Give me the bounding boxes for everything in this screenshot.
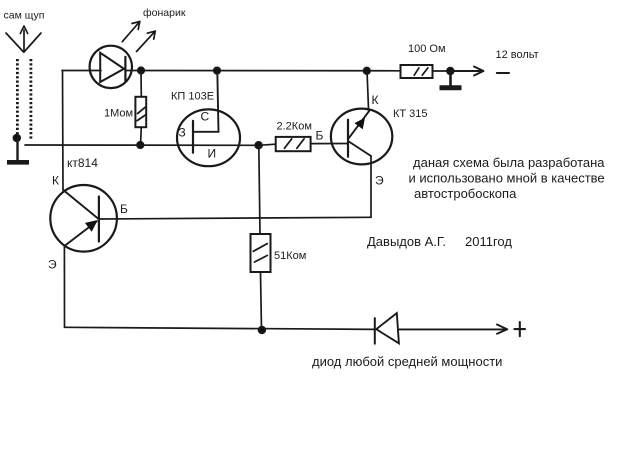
wire: gate rail from probe to junction [25,144,259,146]
svg-text:и использовано мной в качестве: и использовано мной в качестве [409,171,605,186]
svg-text:И: И [208,147,217,161]
transistor КП103Е (FET) [177,71,240,167]
wire: КТ315 collector up to rail [367,71,369,111]
svg-text:КТ 315: КТ 315 [393,108,428,120]
svg-text:12 вольт: 12 вольт [496,49,539,61]
node: 1Мом to gate rail [137,142,144,149]
minus sign [497,72,509,74]
resistor 100 Ом [401,65,433,78]
resistor 2.2Ком [276,137,311,151]
wire: 51Ком bottom lead [261,273,262,330]
svg-text:автостробоскопа: автостробоскопа [414,186,517,201]
wire: supply arrow [451,67,484,76]
node: КТ315 collector junction [364,68,371,75]
diode (output) [375,313,399,344]
wire: кт814 emitter down [63,246,65,327]
svg-text:Б: Б [316,129,324,143]
transistor КТ315 (NPN) [331,109,392,165]
svg-text:2011год: 2011год [465,234,512,249]
svg-text:Б: Б [120,202,128,216]
wire: emitter/base rail [99,217,371,219]
transistor кт814 (PNP) [50,185,117,252]
svg-text:100 Ом: 100 Ом [408,43,446,55]
wire: junction to 2.2Ком [259,144,276,145]
svg-text:2.2Ком: 2.2Ком [277,121,312,133]
wire: bottom rail to diode [65,327,375,329]
svg-text:51Ком: 51Ком [274,250,306,262]
wire: 1Мом bottom lead [140,127,143,145]
svg-text:кт814: кт814 [67,156,98,170]
label "+" [514,322,525,336]
svg-text:Э: Э [375,174,384,188]
svg-text:диод любой средней мощности: диод любой средней мощности [312,354,502,369]
svg-text:З: З [179,126,186,140]
svg-text:1Мом: 1Мом [104,107,133,119]
wire: top supply rail [125,70,400,72]
LED light arrow 1 [122,21,140,41]
node: FET source / 2.2K / 51K junction [255,142,262,149]
resistor 51Ком [251,234,271,272]
resistor 1Мом [135,97,146,127]
wire: left vertical from LED rail down to кт814 collector [62,71,65,191]
LED light arrow 2 [137,31,156,51]
svg-text:сам щуп: сам щуп [4,10,45,22]
wire: 1Мом top lead [140,71,142,97]
svg-text:даная схема была разработана: даная схема была разработана [413,155,605,170]
antenna (probe pickup) [6,26,41,52]
node: LED cathode / 1Мом junction [138,67,145,74]
svg-text:фонарик: фонарик [143,7,186,19]
wire: КТ315 emitter down [370,156,372,217]
svg-text:КП 103Е: КП 103Е [171,91,214,103]
wire: diode to plus arrow [399,325,507,334]
node: FET drain junction [214,67,221,74]
svg-text:К: К [372,93,379,107]
svg-text:С: С [201,110,210,124]
ground (supply side) [440,71,462,88]
svg-text:Давыдов А.Г.: Давыдов А.Г. [367,234,446,249]
svg-text:Э: Э [48,258,57,272]
probe dashed wire right [29,59,32,139]
node: 51Ком to bottom rail [259,327,266,334]
ground (probe side) [7,138,29,162]
node: supply node [447,68,454,75]
wire: rail into LED anode [62,70,101,72]
svg-text:К: К [52,174,59,188]
wire: 100 Ом to supply node [433,70,451,72]
LED D1 [90,46,132,88]
junction dot at probe ground [13,135,20,142]
probe dashed wire left [16,59,19,134]
wire: 2.2Ком to КТ315 base [311,143,348,145]
wire: junction down to 51Ком [259,145,260,233]
